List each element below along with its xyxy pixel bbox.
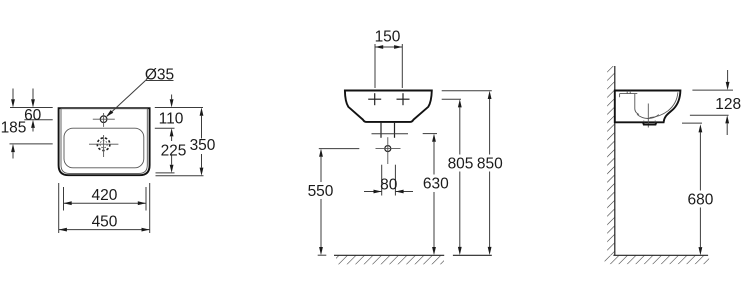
dimension 150 [375, 29, 403, 89]
dimension 80 [364, 165, 413, 196]
dimension 110 [155, 95, 203, 142]
svg-text:185: 185 [1, 119, 27, 136]
dimension 805 [442, 99, 474, 255]
basin bottom extension line [682, 122, 702, 124]
floor line side view [605, 255, 710, 264]
dimension 850 [442, 91, 503, 255]
dimension 128 [690, 70, 741, 135]
dimension 450 [59, 183, 150, 233]
dimension 185 [1, 89, 53, 159]
drain [89, 135, 118, 157]
dimension 225 [156, 142, 187, 173]
faucet hole [93, 113, 115, 127]
svg-text:805: 805 [448, 155, 474, 172]
basin bottom drain bump [643, 122, 656, 124]
dimension 60 [10, 89, 53, 132]
label diameter 35 leader [106, 66, 174, 117]
drain stub [372, 122, 409, 138]
dimension 680 [687, 124, 713, 255]
svg-text:850: 850 [477, 155, 503, 172]
svg-text:225: 225 [161, 142, 187, 159]
svg-text:350: 350 [190, 137, 216, 154]
fixing hole right [397, 93, 410, 105]
svg-text:128: 128 [715, 96, 741, 113]
trap centre cross [376, 137, 401, 164]
svg-text:80: 80 [380, 177, 398, 194]
basin side interior [620, 91, 678, 128]
svg-text:420: 420 [91, 187, 117, 204]
floor line front view [334, 255, 492, 264]
svg-text:680: 680 [687, 192, 713, 209]
svg-text:450: 450 [92, 213, 118, 230]
basin top-view outer rim [59, 108, 150, 175]
svg-text:550: 550 [308, 183, 334, 200]
svg-text:110: 110 [159, 111, 184, 128]
dimension 550 [308, 149, 360, 256]
svg-text:630: 630 [423, 176, 449, 193]
wall line side view [607, 66, 615, 255]
basin top-view inner bowl [64, 128, 144, 168]
dimension 420 [64, 187, 147, 211]
dimension 630 [423, 134, 449, 256]
svg-text:60: 60 [24, 107, 42, 124]
fixing hole left [368, 93, 381, 105]
basin front profile [345, 91, 432, 122]
basin side profile [615, 91, 681, 123]
svg-text:150: 150 [375, 29, 401, 46]
dimension 350 [156, 108, 216, 176]
